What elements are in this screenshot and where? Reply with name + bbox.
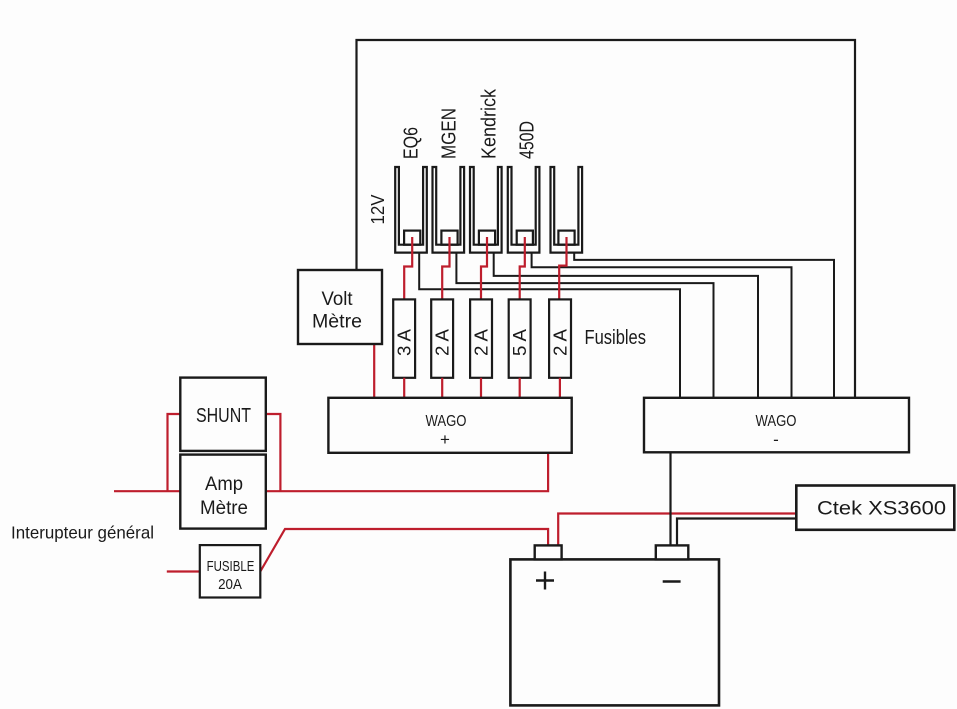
svg-text:EQ6: EQ6: [401, 127, 423, 159]
svg-text:450D: 450D: [517, 121, 539, 159]
socket J1 center pin: [404, 231, 420, 245]
wire fuse20 to battery + (red): [260, 529, 548, 572]
wire J2 pin to fuse F2 (red): [442, 237, 449, 299]
socket J2 center pin: [441, 231, 457, 245]
wire F4 to WAGO+ (red): [519, 378, 521, 398]
WAGO+ terminal block: [328, 398, 571, 453]
charger Ctek XS3600: [796, 486, 954, 530]
socket J3 shell: [470, 167, 502, 253]
svg-text:2 A: 2 A: [471, 329, 491, 356]
svg-text:20A: 20A: [218, 576, 242, 593]
wire battery + to Ctek (red): [558, 514, 796, 546]
wire battery - to Ctek (black): [677, 519, 796, 546]
svg-text:Interupteur général: Interupteur général: [11, 523, 154, 543]
svg-text:3 A: 3 A: [395, 329, 415, 356]
svg-text:Volt: Volt: [322, 289, 354, 310]
wire ammeter line left segment (red): [114, 490, 180, 492]
wire F5 to WAGO+ (red): [559, 378, 561, 398]
wire J5 shell to WAGO- (black): [574, 253, 834, 398]
wire volt meter to WAGO+ (red): [373, 344, 375, 398]
socket J5 center pin: [558, 231, 574, 245]
svg-text:-: -: [773, 430, 779, 449]
svg-text:Mètre: Mètre: [200, 498, 248, 519]
wire J4 shell to WAGO- (black): [532, 253, 792, 398]
battery + mark: [536, 572, 554, 590]
svg-text:WAGO: WAGO: [426, 413, 467, 430]
battery - mark: [663, 580, 681, 583]
wire J4 pin to fuse F4 (red): [520, 237, 525, 299]
svg-text:2 A: 2 A: [433, 329, 453, 356]
ammeter U2: [180, 455, 265, 529]
wire F1 to WAGO+ (red): [403, 378, 405, 398]
wire F2 to WAGO+ (red): [441, 378, 443, 398]
svg-text:Kendrick: Kendrick: [479, 88, 501, 159]
svg-text:Amp: Amp: [205, 474, 243, 495]
fuse F3 2A: [470, 299, 492, 377]
svg-text:12V: 12V: [367, 194, 388, 225]
battery - terminal: [656, 545, 689, 559]
wire J2 shell to WAGO- (black): [456, 253, 713, 398]
svg-text:Fusibles: Fusibles: [585, 326, 647, 349]
fuse F4 5A: [509, 299, 531, 377]
wire shunt right leg (red): [266, 414, 281, 491]
svg-text:Mètre: Mètre: [312, 312, 362, 333]
svg-text:Ctek XS3600: Ctek XS3600: [817, 499, 946, 520]
svg-text:MGEN: MGEN: [439, 108, 461, 159]
socket J4 shell: [508, 167, 540, 253]
svg-text:+: +: [440, 430, 450, 449]
fuse F6 20A: [200, 545, 260, 597]
wire 12V supply loop (top rectangle): [357, 40, 856, 398]
shunt R1: [180, 378, 265, 451]
svg-text:FUSIBLE: FUSIBLE: [207, 558, 255, 575]
wire fuse20 input stub (red): [167, 570, 200, 572]
wire J3 shell to WAGO- (black): [494, 253, 758, 398]
wire J1 shell to WAGO- (black): [419, 253, 680, 398]
wire J1 pin to fuse F1 (red): [404, 237, 412, 299]
WAGO- terminal block: [644, 398, 909, 453]
svg-text:SHUNT: SHUNT: [196, 405, 251, 427]
fuse F1 3A: [393, 299, 415, 377]
battery + terminal: [535, 545, 562, 559]
wire F3 to WAGO+ (red): [480, 378, 482, 398]
socket J4 center pin: [517, 231, 533, 245]
wire J3 pin to fuse F3 (red): [481, 237, 487, 299]
fuse F5 2A: [549, 299, 571, 377]
socket J5 shell: [551, 167, 583, 253]
wire WAGO- to battery - (black): [669, 452, 671, 545]
battery BT1: [510, 559, 719, 705]
wire shunt left leg (red): [168, 414, 181, 491]
svg-text:WAGO: WAGO: [756, 413, 797, 430]
wire J5 pin to fuse F5 (red): [559, 237, 566, 299]
volt meter U1: [298, 270, 382, 344]
socket J2 shell: [433, 167, 465, 253]
socket J1 shell: [395, 167, 427, 253]
svg-text:5 A: 5 A: [510, 329, 530, 356]
socket J3 center pin: [479, 231, 495, 245]
wire WAGO+ to shunt/ammeter node (red): [266, 453, 548, 491]
fuse F2 2A: [431, 299, 453, 377]
svg-text:2 A: 2 A: [550, 329, 570, 356]
